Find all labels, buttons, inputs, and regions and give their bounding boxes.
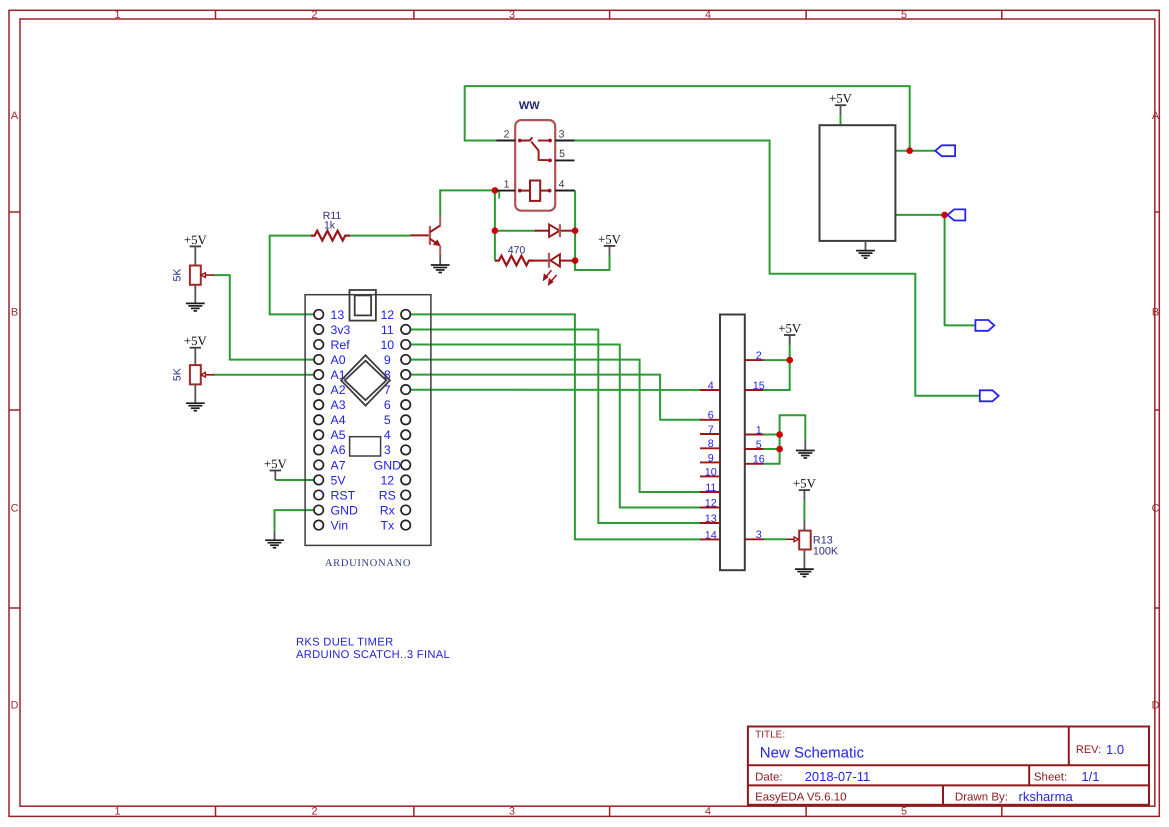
arduino pin 9 (right) [401,355,410,364]
LCD pin 5 (right) [745,439,764,451]
svg-text:3: 3 [756,529,762,541]
ground stem (LCD) [804,439,806,450]
resistor 470 [495,256,535,266]
wire: flag P2 junction down to flag P3 [945,215,976,326]
svg-text:1/1: 1/1 [1081,769,1099,784]
svg-text:5K: 5K [172,368,184,381]
svg-text:Tx: Tx [380,519,395,533]
junction: relay pin1 / Q1 collector [492,187,499,194]
svg-text:+5V: +5V [264,457,288,471]
svg-text:13: 13 [331,308,345,322]
svg-text:GND: GND [331,503,358,517]
svg-text:B: B [11,306,18,318]
svg-text:A: A [11,110,19,122]
wire: arduino D8 to LCD pin6 [410,375,701,420]
+5V power flag (arduino 5V) [264,457,288,471]
arduino pin Tx (right) [401,520,410,529]
svg-text:A2: A2 [331,383,346,397]
svg-text:Vin: Vin [331,519,349,533]
wire: R11 left to arduino pin 13 [270,236,315,315]
LCD pin 8 (left) [700,438,720,450]
+5V stem (arduino) [274,471,276,481]
svg-text:A7: A7 [331,458,346,472]
junction: diode cathode rail [572,227,579,234]
arduino pin 3 (right) [401,445,410,454]
arduino pin 13 (left) [314,310,323,319]
svg-text:+5V: +5V [829,92,853,106]
ground (R13) [795,569,814,577]
svg-text:+5V: +5V [184,334,208,348]
svg-text:A3: A3 [331,398,346,412]
svg-text:10: 10 [380,338,394,352]
svg-text:1: 1 [756,424,762,436]
arduino icsp diamond [341,355,390,405]
svg-text:Date:: Date: [755,772,783,784]
svg-text:C: C [11,503,19,515]
+5V stem (box) [840,105,842,114]
wire: +5V to box top [840,114,842,125]
svg-text:A: A [1152,110,1160,122]
wire: relay pin2 to top-right net (box pin1 / flag P1) [465,86,910,151]
wire: LCD pin1 to junction [763,434,780,436]
junction: diode anode branch [492,227,499,234]
arduino pin 10 (right) [401,340,410,349]
svg-text:5: 5 [384,413,391,427]
junction: LED cathode rail [572,257,579,264]
junction: box pin2 net [941,212,948,219]
svg-text:5: 5 [901,9,907,21]
arduino pin 12 (right) [401,310,410,319]
svg-text:3: 3 [509,9,515,21]
wire: arduino D11 to LCD pin13 [410,330,701,524]
svg-text:14: 14 [705,529,717,541]
svg-text:REV:: REV: [1076,744,1101,756]
svg-text:4: 4 [559,178,565,190]
net flag P4 [980,390,999,401]
svg-text:D: D [11,700,19,712]
wire: arduino D10 to LCD pin12 [410,345,701,508]
svg-text:2: 2 [504,128,510,140]
svg-text:13: 13 [705,513,717,525]
svg-text:New Schematic: New Schematic [760,745,865,762]
wire: arduino D9 to LCD pin11 [410,360,701,492]
svg-text:15: 15 [753,380,765,392]
+5V stem (R13) [803,490,805,500]
relay pin 1 [497,178,516,190]
svg-text:ARDUINONANO: ARDUINONANO [325,558,411,569]
svg-text:A0: A0 [331,353,346,367]
+5V stem (LCD) [789,335,791,345]
ground (pot 1) [186,285,205,311]
wire: R11 right to Q1 base [350,235,411,237]
svg-text:11: 11 [381,323,394,337]
diode D1 (flyback) [535,224,575,237]
+5V power flag (LED rail) [598,232,622,246]
svg-text:Sheet:: Sheet: [1034,772,1067,784]
wire: arduino GND pin to ground [275,510,315,530]
LCD pin 1 (right) [745,424,764,436]
arduino pin GND (right) [401,460,410,469]
svg-text:A4: A4 [331,413,346,427]
svg-text:3: 3 [384,443,391,457]
potentiometer R13 100K [786,531,811,550]
svg-text:GND: GND [374,458,401,472]
LCD pin 9 (left) [700,452,720,464]
svg-text:12: 12 [380,308,394,322]
svg-text:3: 3 [559,128,565,140]
wire: relay pin3 to flag P4 [575,141,980,396]
svg-text:9: 9 [708,452,714,464]
svg-text:+5V: +5V [793,477,817,491]
svg-text:12: 12 [705,497,717,509]
arduino nano U1 body [305,295,431,546]
junction: LCD pin2 +5V [786,357,793,364]
svg-text:ARDUINO SCATCH..3 FINAL: ARDUINO SCATCH..3 FINAL [296,649,450,661]
svg-text:5K: 5K [172,269,184,282]
svg-text:1k: 1k [324,219,336,231]
potentiometer 5K (lower) [190,365,214,384]
wire: box pin2 to flag P2 [895,214,948,216]
svg-text:+5V: +5V [778,321,802,335]
relay coil [520,181,550,201]
arduino pin A2 (left) [314,385,323,394]
LCD pin 4 (left) [700,380,720,392]
arduino pin 3v3 (left) [314,325,323,334]
svg-text:D: D [1152,700,1160,712]
svg-text:7: 7 [708,424,714,436]
wire: vertical from relay pin1 junction down to LED resistor [494,190,496,260]
box module U2 [820,125,896,241]
svg-text:5: 5 [559,148,565,160]
R13 bottom lead to ground [803,550,805,569]
arduino pin 12 (right) [401,475,410,484]
LCD pin 14 (left) [700,529,720,541]
LCD pin 16 (right) [745,454,765,466]
arduino small rect [350,437,381,456]
svg-text:470: 470 [508,245,526,257]
R13 top lead [803,521,805,530]
LCD pin 7 (left) [700,424,720,436]
svg-text:12: 12 [380,473,394,487]
svg-text:TITLE:: TITLE: [755,729,785,740]
svg-text:+5V: +5V [598,232,622,246]
relay WW body [515,120,555,211]
relay pin4 lead [555,190,575,192]
LCD pin 2 (right) [745,350,764,362]
svg-text:4: 4 [705,9,711,21]
+5V power flag (box) [829,92,853,106]
LED LED1 [535,253,575,285]
svg-text:100K: 100K [813,546,839,558]
ground (box) [856,241,875,258]
svg-text:RST: RST [331,488,356,502]
wire: +5V to R13 top [803,500,805,521]
arduino pin Ref (left) [314,340,323,349]
potentiometer 5K (upper) [190,266,214,285]
resistor R11 1k [311,231,350,241]
ground (Q1 emitter) [431,265,450,273]
wire: pot wiper to arduino A1 [213,374,314,376]
svg-text:A1: A1 [331,368,346,382]
arduino pin 7 (right) [401,385,410,394]
arduino pin A1 (left) [314,370,323,379]
ground (arduino GND) [265,540,284,548]
wire stub below relay pin1 [498,191,500,199]
svg-text:RS: RS [379,488,396,502]
arduino pin Rx (right) [401,505,410,514]
+5V stem (pot1) [194,246,196,265]
arduino pin Vin (left) [314,520,323,529]
svg-text:2: 2 [756,350,762,362]
title block [748,727,1149,805]
LCD pin 13 (left) [700,513,720,525]
svg-text:3: 3 [509,806,515,818]
svg-text:Drawn By:: Drawn By: [955,792,1008,804]
svg-text:3v3: 3v3 [331,323,351,337]
svg-text:A5: A5 [331,428,346,442]
+5V stem (pot2) [194,348,196,365]
svg-text:11: 11 [705,482,716,494]
+5V power flag (pot 2) [184,334,208,348]
LCD pin 11 (left) [700,482,720,494]
net flag P1 [935,145,955,156]
+5V stem (LED rail) [609,246,611,255]
LED emission arrows [544,270,557,284]
LCD header connector body [720,315,745,571]
LCD pin 10 (left) [700,466,720,478]
relay pin 2 [497,128,516,140]
ground (LCD pins 1/5/16) [796,451,815,459]
wire: arduino D12 to LCD pin14 [410,314,701,539]
svg-text:1: 1 [114,9,120,21]
wire: +5V junction down to LCD pin15 [763,345,790,390]
arduino pin RS (right) [401,490,410,499]
svg-text:RKS DUEL TIMER: RKS DUEL TIMER [296,637,393,649]
svg-text:5: 5 [756,439,762,451]
svg-text:4: 4 [708,380,714,392]
svg-text:5V: 5V [331,473,347,487]
svg-text:B: B [1152,306,1159,318]
wire: arduino D7 to LCD pin4 [410,389,701,391]
svg-text:8: 8 [708,438,714,450]
svg-text:4: 4 [384,428,391,442]
LCD pin 3 (right) [745,529,764,541]
svg-text:A6: A6 [331,443,346,457]
LCD pin 6 (left) [700,410,720,422]
+5V power flag (LCD) [778,321,802,335]
arduino pin 5V (left) [314,475,323,484]
arduino pin 4 (right) [401,430,410,439]
LCD pin 12 (left) [700,497,720,509]
svg-text:2: 2 [311,9,317,21]
wire: box pin1 to flag P1 [895,150,935,152]
frame column numbers [114,9,907,818]
wire: LCD pin3 to R13 wiper [763,538,786,540]
transistor Q1 (NPN) [411,216,441,265]
svg-text:C: C [1152,503,1160,515]
arduino pin circles and labels [314,308,410,533]
wire: LCD pin16 up and over to ground [763,415,805,464]
arduino usb connector [350,290,376,321]
wire: LCD pin5 to junction [763,448,780,450]
arduino pin 6 (right) [401,400,410,409]
svg-text:rksharma: rksharma [1019,789,1074,804]
ground stem (arduino) [274,530,276,540]
svg-text:10: 10 [705,466,717,478]
relay contact dots [518,139,552,193]
ground (pot 2) [186,384,205,410]
svg-text:6: 6 [384,398,391,412]
arduino pin A3 (left) [314,400,323,409]
svg-text:2018-07-11: 2018-07-11 [805,769,871,784]
arduino pin A6 (left) [314,445,323,454]
frame row letters [11,110,1160,711]
wire: LCD pin2 to +5V [763,359,790,361]
arduino pin A5 (left) [314,430,323,439]
relay pin 4 [555,178,574,190]
wire: pot R? wiper to arduino A0 [213,275,314,360]
svg-text:1.0: 1.0 [1106,742,1124,757]
svg-text:1: 1 [504,178,510,190]
svg-text:Ref: Ref [331,338,351,352]
svg-text:WW: WW [519,100,540,112]
svg-text:16: 16 [753,454,765,466]
svg-text:5: 5 [901,806,907,818]
svg-text:1: 1 [114,806,120,818]
wire: Q1 collector up to relay pin1 [440,190,496,215]
junction: LCD pin5 [776,446,783,453]
arduino pin 5 (right) [401,415,410,424]
svg-text:4: 4 [705,806,711,818]
relay switch contacts [520,137,550,160]
junction: LCD pin1 [776,431,783,438]
arduino pin GND (left) [314,505,323,514]
arduino pin 8 (right) [401,370,410,379]
arduino pin A7 (left) [314,460,323,469]
relay pin 5 [555,148,574,160]
wire: +5V to arduino 5V pin [275,479,314,481]
LCD pin 15 (right) [745,380,765,392]
relay pin 3 [555,128,574,140]
svg-text:9: 9 [384,353,391,367]
+5V power flag (pot 1) [184,233,208,247]
svg-text:+5V: +5V [184,233,208,247]
arduino pin RST (left) [314,490,323,499]
net flag P3 [975,320,994,331]
svg-text:Rx: Rx [380,503,396,517]
junction: box pin1 net [906,147,913,154]
svg-text:2: 2 [311,806,317,818]
arduino pin A4 (left) [314,415,323,424]
svg-text:6: 6 [708,410,714,422]
wire: junction to diode D1 anode [495,230,536,232]
net flag P2 [948,209,966,220]
svg-text:EasyEDA V5.6.10: EasyEDA V5.6.10 [755,792,846,804]
arduino pin 11 (right) [401,325,410,334]
+5V power flag (R13) [793,477,817,491]
wire: relay pin4 down past diode and LED to +5V [575,191,609,270]
arduino pin A0 (left) [314,355,323,364]
